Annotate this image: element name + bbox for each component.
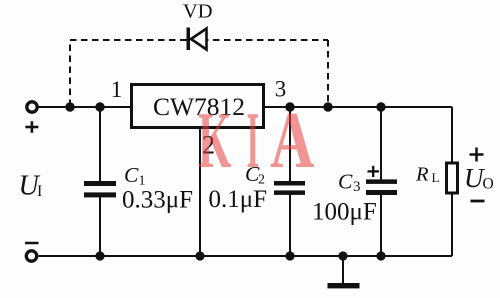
svg-text:0.1μF: 0.1μF (209, 186, 268, 213)
svg-text:I: I (37, 183, 42, 200)
svg-text:O: O (483, 176, 494, 193)
svg-text:A: A (270, 95, 314, 185)
svg-text:K: K (198, 96, 231, 186)
svg-text:VD: VD (183, 1, 213, 23)
svg-text:L: L (432, 170, 440, 185)
svg-text:I: I (247, 96, 260, 185)
svg-text:3: 3 (353, 179, 361, 195)
svg-text:1: 1 (111, 77, 123, 102)
svg-text:C: C (124, 163, 139, 187)
svg-text:C: C (338, 170, 353, 194)
svg-text:100μF: 100μF (312, 199, 377, 226)
svg-text:R: R (415, 164, 429, 186)
svg-text:0.33μF: 0.33μF (122, 187, 193, 214)
